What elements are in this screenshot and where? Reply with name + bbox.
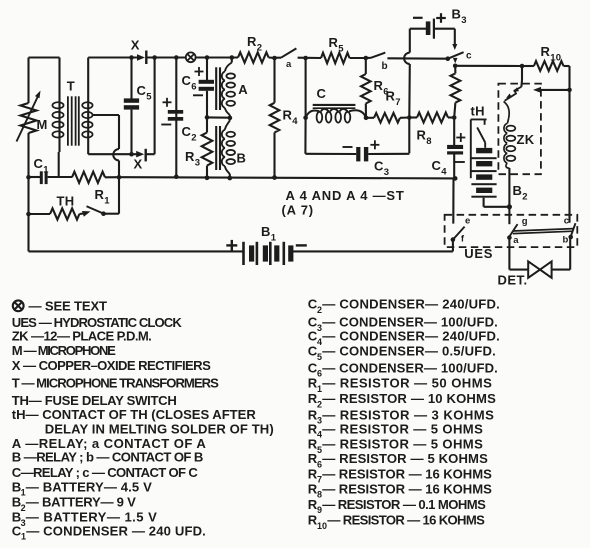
- svg-text:tH: tH: [471, 104, 485, 119]
- svg-text:— RESISTOR — 16 KOHMS: — RESISTOR — 16 KOHMS: [322, 466, 492, 481]
- svg-text:a: a: [286, 59, 292, 70]
- svg-text:T — MICROPHONE TRANSFORMERS: T — MICROPHONE TRANSFORMERS: [12, 375, 219, 390]
- svg-text:X — COPPER–OXIDE RECTIFIERS: X — COPPER–OXIDE RECTIFIERS: [12, 358, 211, 373]
- svg-text:10: 10: [317, 521, 327, 531]
- svg-text:b: b: [563, 235, 569, 246]
- svg-text:A: A: [238, 82, 248, 97]
- svg-text:TH: TH: [57, 194, 75, 209]
- svg-text:— RESISTOR — 5 OHMS: — RESISTOR — 5 OHMS: [322, 421, 483, 436]
- svg-text:M: M: [37, 117, 48, 132]
- svg-text:b: b: [382, 61, 388, 72]
- svg-text:— BATTERY— 1.5 V: — BATTERY— 1.5 V: [26, 510, 157, 525]
- svg-text:— CONDENSER— 240/UFD.: — CONDENSER— 240/UFD.: [322, 329, 500, 344]
- svg-text:— RESISTOR — 16 KOHMS: — RESISTOR — 16 KOHMS: [322, 482, 492, 497]
- svg-text:C: C: [317, 86, 327, 101]
- svg-text:— RESISTOR — 5 OHMS: — RESISTOR — 5 OHMS: [322, 437, 483, 452]
- svg-text:X: X: [131, 38, 140, 53]
- svg-text:f: f: [461, 233, 465, 244]
- svg-text:— CONDENSER— 100/UFD.: — CONDENSER— 100/UFD.: [322, 315, 498, 330]
- svg-text:c: c: [466, 51, 472, 62]
- svg-text:— BATTERY— 9 V: — BATTERY— 9 V: [26, 495, 136, 510]
- svg-text:— RESISTOR — 50 OHMS: — RESISTOR — 50 OHMS: [322, 376, 492, 391]
- svg-text:— BATTERY— 4.5 V: — BATTERY— 4.5 V: [26, 479, 152, 494]
- svg-text:tH— CONTACT OF TH (CLOSES AFTE: tH— CONTACT OF TH (CLOSES AFTER: [12, 407, 257, 422]
- svg-text:X: X: [134, 157, 143, 172]
- svg-text:c: c: [564, 215, 570, 226]
- svg-text:DET.: DET.: [498, 273, 528, 288]
- svg-text:B: B: [237, 151, 247, 166]
- svg-text:a: a: [513, 235, 519, 246]
- svg-text:(A 7): (A 7): [282, 203, 314, 218]
- svg-text:B —RELAY ; b — CONTACT OF B: B —RELAY ; b — CONTACT OF B: [12, 450, 204, 465]
- svg-text:A —RELAY; a CONTACT OF A: A —RELAY; a CONTACT OF A: [12, 436, 207, 451]
- svg-text:— RESISTOR — 5 KOHMS: — RESISTOR — 5 KOHMS: [322, 451, 488, 466]
- svg-text:— CONDENSER— 0.5/UFD.: — CONDENSER— 0.5/UFD.: [322, 344, 496, 359]
- svg-text:— RESISTOR — 3 KOHMS: — RESISTOR — 3 KOHMS: [322, 407, 494, 422]
- svg-text:T: T: [67, 79, 75, 94]
- svg-text:e: e: [465, 216, 471, 227]
- svg-text:— CONDENSER — 240 UFD.: — CONDENSER — 240 UFD.: [26, 523, 206, 538]
- svg-text:TH— FUSE DELAY SWITCH: TH— FUSE DELAY SWITCH: [12, 393, 177, 408]
- svg-text:— CONDENSER— 100/UFD.: — CONDENSER— 100/UFD.: [322, 360, 498, 375]
- svg-text:— RESISTOR — 16 KOHMS: — RESISTOR — 16 KOHMS: [327, 513, 485, 528]
- svg-text:UES: UES: [464, 246, 493, 261]
- svg-text:— SEE TEXT: — SEE TEXT: [29, 299, 108, 314]
- svg-text:ZK: ZK: [517, 132, 535, 147]
- svg-text:— RESISTOR — 10 KOHMS: — RESISTOR — 10 KOHMS: [322, 391, 496, 406]
- svg-text:DELAY IN MELTING SOLDER OF TH): DELAY IN MELTING SOLDER OF TH): [45, 422, 274, 437]
- svg-text:— RESISTOR — 0.1 MOHMS: — RESISTOR — 0.1 MOHMS: [322, 497, 486, 512]
- svg-text:— CONDENSER— 240/UFD.: — CONDENSER— 240/UFD.: [322, 297, 500, 312]
- svg-text:C—RELAY ; c — CONTACT OF C: C—RELAY ; c — CONTACT OF C: [12, 465, 199, 480]
- svg-text:g: g: [522, 216, 528, 227]
- svg-text:M — MICROPHONE: M — MICROPHONE: [12, 343, 116, 358]
- svg-text:ZK —12— PLACE P.D.M.: ZK —12— PLACE P.D.M.: [12, 329, 152, 344]
- svg-text:A 4 AND A 4 —ST: A 4 AND A 4 —ST: [286, 188, 405, 203]
